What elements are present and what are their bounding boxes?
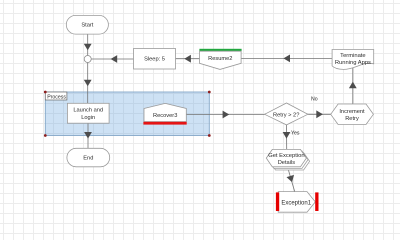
svg-text:Details: Details xyxy=(278,160,296,166)
wire sleep to anchor xyxy=(91,55,133,63)
svg-text:Running Apps: Running Apps xyxy=(335,60,371,66)
get exception details multi calculation stack xyxy=(268,151,310,170)
svg-text:End: End xyxy=(83,156,93,162)
svg-text:Retry > 2?: Retry > 2? xyxy=(273,112,299,118)
wire start to anchor xyxy=(84,34,92,55)
start node xyxy=(66,15,108,34)
wire resume2 to sleep xyxy=(176,55,200,63)
launch and login action box xyxy=(67,103,109,123)
svg-text:Resume2: Resume2 xyxy=(208,56,232,62)
process container block xyxy=(45,92,209,136)
svg-text:Yes: Yes xyxy=(291,131,300,137)
svg-text:Retry: Retry xyxy=(345,116,359,122)
svg-text:Terminate: Terminate xyxy=(340,53,365,59)
svg-text:Login: Login xyxy=(81,115,95,121)
get exception details calculation hexagon xyxy=(266,149,306,166)
exception1 right red bar xyxy=(315,192,318,211)
container selection handle top-left xyxy=(44,91,47,94)
wire recover3 to decision xyxy=(186,111,264,119)
recover3 breakpoint bar xyxy=(143,122,186,125)
svg-text:Recover3: Recover3 xyxy=(153,113,177,119)
svg-text:No: No xyxy=(311,96,318,102)
container selection handle bottom-left xyxy=(44,134,47,137)
resume2 breakpoint bar xyxy=(199,49,241,51)
increment retry calculation hexagon xyxy=(331,104,374,125)
label No xyxy=(311,96,318,102)
svg-text:Get Exception: Get Exception xyxy=(268,153,304,159)
svg-text:Increment: Increment xyxy=(339,109,365,115)
wire launch to end xyxy=(84,123,92,148)
sleep action box xyxy=(134,49,176,70)
wire decision to get exception xyxy=(283,125,291,149)
process label tab xyxy=(45,92,67,100)
container selection handle top-right xyxy=(208,91,211,94)
wire terminate to resume2 xyxy=(241,55,332,63)
wire decision to increment retry xyxy=(308,110,331,118)
recover3 stage xyxy=(144,103,186,121)
label Yes xyxy=(291,131,300,137)
svg-text:Exception1: Exception1 xyxy=(281,201,311,207)
wire anchor to launch xyxy=(84,63,92,104)
wire increment retry to terminate xyxy=(349,67,357,104)
svg-text:Sleep: 5: Sleep: 5 xyxy=(144,57,165,63)
wire get exception to exception1 xyxy=(287,167,295,192)
svg-text:Start: Start xyxy=(81,23,93,29)
terminate running apps document stage xyxy=(332,50,374,70)
svg-text:Launch and: Launch and xyxy=(73,108,103,114)
end node xyxy=(67,148,110,167)
anchor junction circle xyxy=(84,56,91,63)
svg-text:Process: Process xyxy=(47,94,66,100)
exception1 stage xyxy=(278,192,315,213)
resume2 stage xyxy=(200,51,242,69)
exception1 left red bar xyxy=(276,192,279,211)
container selection handle bottom-right xyxy=(208,134,211,137)
decision diamond retry xyxy=(265,103,308,125)
